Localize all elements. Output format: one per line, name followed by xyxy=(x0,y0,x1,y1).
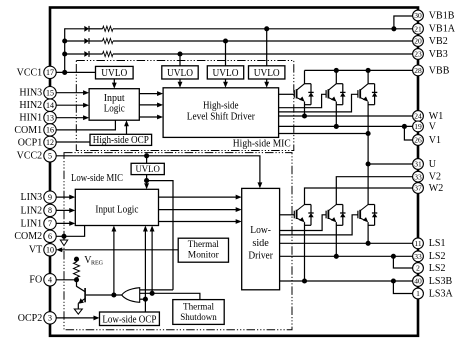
svg-text:LS1: LS1 xyxy=(429,238,446,249)
junction UVLO out branch xyxy=(144,178,149,183)
wire: emitter drop V (high) xyxy=(335,102,337,127)
wire: gate2 low (jog) xyxy=(280,215,327,231)
IGBT Q2 (high V): collector lead xyxy=(329,84,337,90)
junction on feeder at VB3 row xyxy=(62,51,67,56)
pin 28 VBB xyxy=(413,65,424,76)
svg-text:V2: V2 xyxy=(429,172,441,183)
IGBT Q4 (low W): freewheel diode xyxy=(305,204,312,206)
wire+arrow: fault riser TS to Input Logic xyxy=(151,228,153,294)
wire+arrow: HIN3 to Input Logic xyxy=(56,92,87,94)
IGBT Q1 (high W): emitter lead with arrow xyxy=(297,98,304,101)
pin 10 VT xyxy=(44,244,56,256)
wire: emitter drop W (high) xyxy=(304,102,306,117)
svg-text:LS3A: LS3A xyxy=(429,288,454,299)
svg-text:21: 21 xyxy=(414,24,422,33)
wire: UVLO fault branch to gate xyxy=(147,181,173,290)
wire+arrow: Input Logic to Driver (top) xyxy=(139,93,161,95)
wire: LS2 line xyxy=(280,255,413,257)
junction V/emitter xyxy=(334,124,339,129)
bootstrap resistor R3 (VB3) xyxy=(103,51,114,56)
pin 5 VCC2 xyxy=(44,150,56,162)
pin 24 W1 xyxy=(413,111,424,122)
wire+arrow: fault riser gate out to Input Logic xyxy=(113,228,115,295)
VREG supply node xyxy=(74,257,79,262)
svg-text:VB3: VB3 xyxy=(429,49,448,60)
wire: gate1 high xyxy=(279,93,295,95)
wire: COM2 to Input Logic xyxy=(56,226,84,237)
wire: gate output to FO transistor xyxy=(86,294,122,296)
pin 33 LS2 xyxy=(413,251,424,262)
svg-text:33: 33 xyxy=(414,172,422,181)
Low-side MIC boundary (dash-dot) xyxy=(64,153,292,330)
wire+arrow: Thermal Monitor to VT pin xyxy=(58,249,178,251)
svg-text:33: 33 xyxy=(414,252,422,261)
IGBT Q3 (high U): collector lead xyxy=(361,84,369,90)
svg-text:Monitor: Monitor xyxy=(188,250,220,261)
svg-text:11: 11 xyxy=(414,239,421,248)
arrow: VCC2 into Low-side Driver xyxy=(257,182,262,188)
bootstrap diode D2 (VB2) xyxy=(84,38,89,44)
wire: V1 branch xyxy=(404,126,412,140)
svg-text:40: 40 xyxy=(414,277,422,286)
svg-text:16: 16 xyxy=(46,126,54,135)
junction on feeder at VB2 row xyxy=(62,38,67,43)
IGBT Q6 (low U): collector lead xyxy=(361,205,369,211)
junction U line/vertical xyxy=(366,161,371,166)
svg-text:W1: W1 xyxy=(429,111,443,122)
wire: V output line xyxy=(279,125,413,127)
svg-text:LS2: LS2 xyxy=(429,251,446,262)
junction VCC2/UVLO drop xyxy=(144,153,149,158)
wire+arrow: Input Logic to Driver 3 xyxy=(159,221,240,223)
junction gate output / IL riser xyxy=(111,292,116,297)
svg-text:UVLO: UVLO xyxy=(254,68,280,79)
pin 17 VCC1 xyxy=(44,66,56,78)
svg-text:24: 24 xyxy=(414,112,422,121)
pin 6 COM2 xyxy=(44,230,56,242)
pin 16 COM1 xyxy=(44,124,56,136)
wire: VCC1 to UVLO xyxy=(56,71,95,73)
svg-text:Low-side OCP: Low-side OCP xyxy=(102,315,156,326)
wire: FO pin line xyxy=(56,279,76,281)
Thermal Monitor block xyxy=(178,238,228,262)
junction VB2 row to UVLO drop xyxy=(223,38,228,43)
IGBT Q4 (low W): gate bar xyxy=(293,211,295,219)
pin 7 LIN1 xyxy=(44,217,56,229)
svg-text:Thermal: Thermal xyxy=(188,239,219,250)
Low-side OCP block xyxy=(100,312,160,326)
junction V/V1 branch xyxy=(402,124,407,129)
svg-text:FO: FO xyxy=(29,275,42,286)
pin 13 HIN1 xyxy=(44,112,56,124)
svg-text:15: 15 xyxy=(46,88,54,97)
wire: U output line xyxy=(368,163,413,165)
wire: phase U vertical (high emitter to low collector) xyxy=(367,102,369,205)
IGBT Q6 (low U): gate bar xyxy=(357,211,359,219)
wire: collector riser U xyxy=(367,70,369,83)
pin 4 FO xyxy=(44,274,56,286)
svg-text:Level Shift Driver: Level Shift Driver xyxy=(187,112,256,123)
IGBT Q6 (low U): body bar xyxy=(359,210,361,219)
IGBT Q1 (high W): collector lead xyxy=(297,84,305,90)
wire: emitter drop U (low) xyxy=(367,222,369,243)
svg-text:Logic: Logic xyxy=(104,103,125,114)
junction input C / OCP riser xyxy=(143,297,148,302)
svg-text:HIN2: HIN2 xyxy=(19,100,42,111)
IGBT Q2 (high V): freewheel diode xyxy=(336,83,343,85)
arrow: UVLO to Input Logic (low) xyxy=(144,183,149,189)
UVLO block (VCC1) xyxy=(96,66,134,79)
svg-text:High-side: High-side xyxy=(203,100,239,111)
svg-text:LS2: LS2 xyxy=(429,263,446,274)
wire: gate input C (OCP) xyxy=(140,298,146,300)
junction LS3B/LS3A branch xyxy=(391,278,396,283)
svg-text:UVLO: UVLO xyxy=(101,68,127,79)
svg-text:VBB: VBB xyxy=(429,65,450,76)
wire: UVLO out (low) xyxy=(146,175,148,188)
wire: gate3 high (jog) xyxy=(279,94,358,112)
wire+arrow: UVLO to Level Shift Driver xyxy=(225,79,227,86)
svg-text:VB2: VB2 xyxy=(429,36,448,47)
pin 20 VB2 xyxy=(413,36,424,47)
wire: LS2 pin2 branch xyxy=(393,256,412,268)
wire: VB1 bootstrap row xyxy=(65,28,85,30)
wire+arrow: UVLO to Level Shift Driver xyxy=(179,79,181,86)
wire: LS1 line xyxy=(280,242,413,244)
wire: UVLO drop (low) xyxy=(146,156,148,164)
pin 2 LS2 xyxy=(413,263,424,274)
pull-up resistor to VREG xyxy=(76,259,78,262)
wire: emitter drop V (low) xyxy=(335,222,337,256)
junction VB1 row to VB1B branch xyxy=(391,26,396,31)
svg-text:VB1B: VB1B xyxy=(429,10,455,21)
IGBT Q2 (high V): body bar xyxy=(327,89,329,98)
IGBT Q4 (low W): collector lead xyxy=(297,205,305,211)
junction VBB/V riser xyxy=(334,68,339,73)
FO open-collector transistor Q7 xyxy=(84,288,86,302)
svg-text:Thermal: Thermal xyxy=(183,302,214,313)
wire: collector riser W xyxy=(304,70,306,83)
pin 15 HIN3 xyxy=(44,87,56,99)
High-side Level Shift Driver block xyxy=(163,88,279,138)
junction VBB/U riser xyxy=(366,68,371,73)
svg-text:7: 7 xyxy=(48,219,52,228)
svg-text:HIN1: HIN1 xyxy=(19,113,42,124)
wire: OCP1 to High-side OCP xyxy=(56,141,90,143)
Input Logic block (high side) xyxy=(89,89,139,121)
wire+arrow: LIN2 to Input Logic xyxy=(56,209,73,211)
IGBT Q3 (high U): gate bar xyxy=(357,90,359,98)
wire+arrow: OCP2 to Low-side OCP xyxy=(56,317,97,319)
junction VB3 row to UVLO drop xyxy=(177,51,182,56)
svg-text:37: 37 xyxy=(414,184,422,193)
svg-text:6: 6 xyxy=(48,232,52,241)
svg-text:UVLO: UVLO xyxy=(213,68,239,79)
wire+arrow: LIN3 to Input Logic xyxy=(56,196,73,198)
junction LS3B/W emitter xyxy=(302,278,307,283)
svg-text:13: 13 xyxy=(46,113,54,122)
junction W1/emitter xyxy=(302,113,307,118)
svg-text:Input Logic: Input Logic xyxy=(95,204,138,215)
svg-text:W2: W2 xyxy=(429,183,443,194)
junction LS2/LS2 branch xyxy=(391,254,396,259)
junction FO node xyxy=(74,277,79,282)
svg-text:23: 23 xyxy=(414,50,422,59)
IGBT Q5 (low V): collector lead xyxy=(329,205,337,211)
svg-text:12: 12 xyxy=(46,138,54,147)
svg-text:10: 10 xyxy=(46,246,54,255)
pin 37 W2 xyxy=(413,183,424,194)
svg-text:VCC1: VCC1 xyxy=(17,67,43,78)
IGBT Q6 (low U): freewheel diode xyxy=(368,204,375,206)
svg-text:COM1: COM1 xyxy=(14,125,42,136)
svg-text:V: V xyxy=(429,121,437,132)
IGBT Q6 (low U): emitter lead with arrow xyxy=(361,218,368,221)
bootstrap resistor R2 (VB2) xyxy=(103,38,114,43)
svg-text:U: U xyxy=(429,159,437,170)
bootstrap diode D1 (VB1) xyxy=(84,26,89,32)
svg-text:HIN3: HIN3 xyxy=(19,88,42,99)
wire: gate input A (UVLO/TS) xyxy=(140,289,173,291)
svg-text:COM2: COM2 xyxy=(14,231,42,242)
pin 1 LS3A xyxy=(413,288,424,299)
wire: gate input B to Thermal Shutdown xyxy=(140,293,200,299)
junction LS1/U emitter xyxy=(366,241,371,246)
wire: emitter drop W (low) xyxy=(304,222,306,281)
IGBT Q5 (low V): body bar xyxy=(327,210,329,219)
wire+arrow: Input Logic to Driver 1 xyxy=(159,196,240,198)
svg-text:26: 26 xyxy=(414,136,422,145)
IGBT Q1 (high W): freewheel diode xyxy=(305,83,312,85)
UVLO block (high side at x=266.7) xyxy=(249,66,285,79)
svg-text:4: 4 xyxy=(48,276,52,285)
IGBT Q3 (high U): emitter lead with arrow xyxy=(361,98,368,101)
svg-text:17: 17 xyxy=(46,68,54,77)
wire: W2 line to low collector W xyxy=(305,188,413,205)
pin 21 VB1A xyxy=(413,23,424,34)
UVLO block (high side at x=180.0) xyxy=(162,66,198,79)
junction input B / IL riser xyxy=(150,291,155,296)
pin 31 U xyxy=(413,159,424,170)
svg-text:UVLO: UVLO xyxy=(135,164,160,175)
svg-text:side: side xyxy=(252,238,269,249)
wire: VB3 bootstrap row xyxy=(65,53,85,55)
junction LS2/V emitter xyxy=(334,254,339,259)
High-side MIC boundary (dash-dot) xyxy=(76,61,293,151)
svg-text:VB1A: VB1A xyxy=(429,24,456,35)
pin 33 V2 xyxy=(413,171,424,182)
svg-text:VT: VT xyxy=(29,245,42,256)
wire+arrow: UVLO to Input Logic xyxy=(113,79,115,87)
svg-text:LS3B: LS3B xyxy=(429,276,453,287)
svg-text:31: 31 xyxy=(414,160,422,169)
wire: gate2 high (jog) xyxy=(279,94,327,107)
svg-text:5: 5 xyxy=(48,152,52,161)
IGBT Q2 (high V): emitter lead with arrow xyxy=(329,98,336,101)
svg-text:REG: REG xyxy=(91,261,104,267)
svg-text:20: 20 xyxy=(414,37,422,46)
svg-text:UVLO: UVLO xyxy=(167,68,193,79)
svg-text:LIN3: LIN3 xyxy=(21,192,43,203)
junction COM2 ground stub xyxy=(61,234,66,239)
pin 9 LIN3 xyxy=(44,191,56,203)
bootstrap resistor R1 (VB1) xyxy=(103,26,114,31)
wire+arrow: HIN2 to Input Logic xyxy=(56,104,87,106)
wire+arrow: High-side OCP to Input Logic xyxy=(126,122,128,134)
svg-text:9: 9 xyxy=(48,193,52,202)
High-side OCP block xyxy=(90,134,152,145)
UVLO block (low side) xyxy=(131,163,164,174)
wire: COM1 to Input Logic xyxy=(56,120,115,130)
IGBT Q4 (low W): emitter lead with arrow xyxy=(297,218,304,221)
pin 8 LIN2 xyxy=(44,204,56,216)
UVLO block (high side at x=225.5) xyxy=(207,66,243,79)
wire: W1 output line xyxy=(279,115,413,117)
IGBT Q2 (high V): gate bar xyxy=(325,90,327,98)
pin 3 OCP2 xyxy=(44,312,56,324)
wire: LS3B line xyxy=(280,280,413,282)
wire+arrow: Input Logic to Driver (mid) xyxy=(139,104,161,106)
wire: V2 line to low collector V xyxy=(336,177,413,205)
svg-text:14: 14 xyxy=(46,101,54,110)
IGBT Q1 (high W): body bar xyxy=(296,89,298,98)
IGBT Q5 (low V): gate bar xyxy=(325,211,327,219)
pin 23 VB3 xyxy=(413,49,424,60)
junction VB1 row to UVLO drop xyxy=(264,26,269,31)
wire+arrow: fault riser OCP to Input Logic xyxy=(144,228,146,312)
pin 14 HIN2 xyxy=(44,99,56,111)
pin 30 VB1B xyxy=(413,10,424,21)
pin 40 LS3B xyxy=(413,276,424,287)
wire: gate3 low (jog) xyxy=(280,215,358,235)
IGBT Q3 (high U): freewheel diode xyxy=(368,83,375,85)
svg-text:Driver: Driver xyxy=(248,250,273,261)
wire: VB2 drop to UVLO xyxy=(225,41,227,66)
svg-text:V1: V1 xyxy=(429,135,441,146)
pin 11 LS1 xyxy=(413,238,424,249)
svg-text:1: 1 xyxy=(416,289,420,298)
wire: VB1B branch xyxy=(394,16,413,29)
pin 19 V xyxy=(413,121,424,132)
Thermal Shutdown block xyxy=(173,300,224,325)
svg-text:LIN2: LIN2 xyxy=(21,205,43,216)
svg-text:OCP2: OCP2 xyxy=(18,313,42,324)
IGBT Q5 (low V): emitter lead with arrow xyxy=(329,218,336,221)
svg-text:VCC2: VCC2 xyxy=(17,151,43,162)
svg-text:High-side OCP: High-side OCP xyxy=(93,135,149,146)
svg-text:30: 30 xyxy=(414,11,422,20)
Input Logic block (low side) xyxy=(75,189,158,225)
wire: LS3A branch xyxy=(393,281,412,294)
wire+arrow: Input Logic to Driver 2 xyxy=(159,209,240,211)
ground symbol (FO emitter) xyxy=(77,303,79,309)
wire+arrow: HIN1 to Input Logic xyxy=(56,117,87,119)
Low-side Driver block xyxy=(242,188,280,289)
IGBT Q3 (high U): body bar xyxy=(359,89,361,98)
IC package outline (outer frame) xyxy=(50,8,418,336)
svg-text:2: 2 xyxy=(416,264,420,273)
wire+arrow: UVLO to Level Shift Driver xyxy=(266,79,268,86)
pin 12 OCP1 xyxy=(44,136,56,148)
wire: VB3 drop to UVLO xyxy=(179,54,181,66)
svg-text:Low-side MIC: Low-side MIC xyxy=(71,173,123,184)
svg-text:28: 28 xyxy=(414,66,422,75)
junction VS3/U vertical xyxy=(366,131,371,136)
svg-text:Shutdown: Shutdown xyxy=(180,312,217,323)
svg-text:19: 19 xyxy=(414,122,422,131)
wire: VBB bus xyxy=(305,69,413,71)
IGBT Q4 (low W): body bar xyxy=(296,210,298,219)
wire+arrow: Input Logic to Driver (bot) xyxy=(139,116,161,118)
svg-text:LIN1: LIN1 xyxy=(21,218,43,229)
bootstrap diode D3 (VB3) xyxy=(84,51,89,57)
wire: VCC1 feeder vertical to bootstrap diodes xyxy=(64,28,66,72)
svg-text:High-side MIC: High-side MIC xyxy=(233,139,291,150)
IGBT Q5 (low V): freewheel diode xyxy=(336,204,343,206)
pin 26 V1 xyxy=(413,135,424,146)
IGBT Q1 (high W): gate bar xyxy=(293,90,295,98)
svg-text:Low-: Low- xyxy=(250,225,271,236)
svg-text:OCP1: OCP1 xyxy=(18,137,42,148)
svg-text:3: 3 xyxy=(48,314,52,323)
wire: VCC2 line xyxy=(56,156,260,186)
ground symbol (COM2) xyxy=(63,236,65,240)
wire: VB2 bootstrap row xyxy=(65,40,85,42)
junction feeder/VCC1 line xyxy=(62,70,67,75)
wire: collector riser V xyxy=(335,70,337,83)
wire: gate1 low xyxy=(280,214,295,216)
wire: VB1 drop to UVLO xyxy=(266,29,268,66)
wire: VS3 sense line xyxy=(279,133,369,135)
fault OR gate (faces left) xyxy=(122,288,140,303)
svg-text:8: 8 xyxy=(48,206,52,215)
wire+arrow: LIN1 to Input Logic xyxy=(56,222,73,224)
